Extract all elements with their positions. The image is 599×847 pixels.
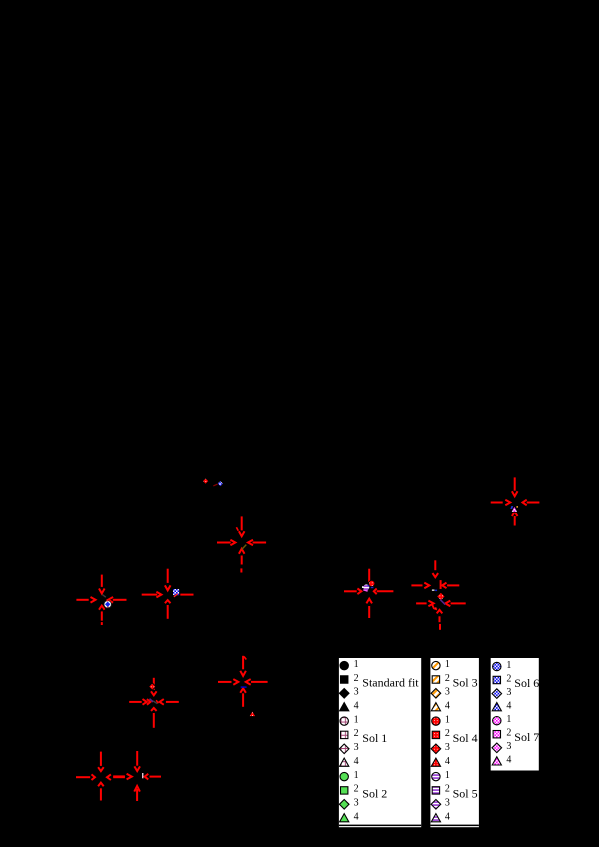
svg-text:4: 4 [354, 756, 359, 767]
svg-text:2: 2 [354, 728, 359, 739]
svg-text:2: 2 [445, 784, 450, 795]
svg-text:2: 2 [445, 728, 450, 739]
svg-text:3: 3 [354, 798, 359, 809]
svg-text:Sol 3: Sol 3 [453, 676, 478, 690]
svg-text:Sol 5: Sol 5 [453, 786, 478, 800]
svg-text:1: 1 [354, 659, 359, 670]
svg-text:3: 3 [354, 687, 359, 698]
svg-text:1: 1 [445, 714, 450, 725]
svg-text:1: 1 [506, 714, 511, 725]
svg-text:Standard fit: Standard fit [362, 676, 419, 690]
svg-text:4: 4 [506, 700, 511, 711]
svg-text:Sol 1: Sol 1 [362, 731, 387, 745]
svg-text:1: 1 [354, 714, 359, 725]
svg-text:3: 3 [506, 687, 511, 698]
svg-text:4: 4 [445, 812, 450, 823]
svg-text:Sol 4: Sol 4 [453, 731, 478, 745]
svg-text:Sol 2: Sol 2 [362, 786, 387, 800]
svg-text:1: 1 [445, 659, 450, 670]
svg-text:2: 2 [354, 784, 359, 795]
svg-text:4: 4 [445, 756, 450, 767]
svg-text:1: 1 [445, 770, 450, 781]
svg-text:4: 4 [354, 701, 359, 712]
svg-text:1: 1 [354, 770, 359, 781]
svg-text:3: 3 [445, 742, 450, 753]
svg-text:2: 2 [506, 728, 511, 739]
svg-text:3: 3 [445, 798, 450, 809]
svg-text:4: 4 [506, 755, 511, 766]
svg-text:4: 4 [445, 701, 450, 712]
svg-text:3: 3 [506, 741, 511, 752]
svg-text:2: 2 [506, 673, 511, 684]
svg-text:4: 4 [354, 812, 359, 823]
svg-text:3: 3 [445, 687, 450, 698]
svg-text:2: 2 [445, 673, 450, 684]
svg-text:Sol 7: Sol 7 [514, 730, 539, 744]
svg-text:1: 1 [506, 660, 511, 671]
svg-text:Sol 6: Sol 6 [514, 676, 539, 690]
svg-text:3: 3 [354, 742, 359, 753]
svg-text:2: 2 [354, 673, 359, 684]
